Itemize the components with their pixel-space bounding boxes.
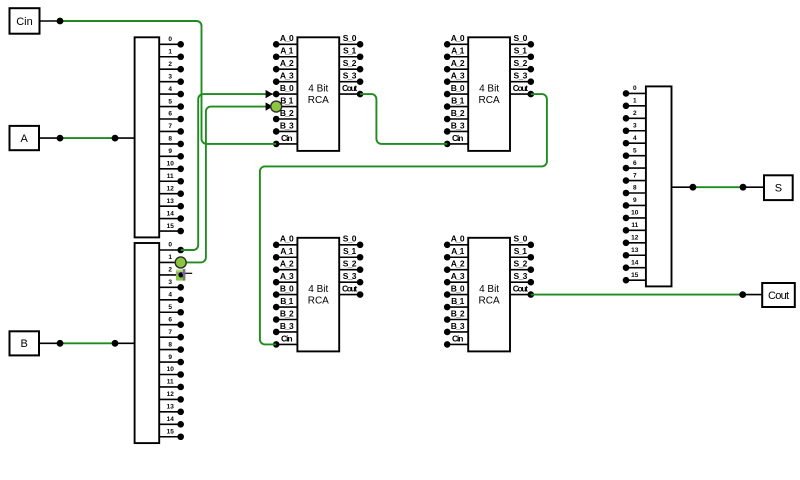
M1 pin 12 xyxy=(623,235,646,247)
wire net B -> SP2 xyxy=(60,342,115,344)
arrowhead U1.B_0 xyxy=(266,90,273,98)
svg-text:4 Bit: 4 Bit xyxy=(479,84,499,95)
subcircuit U3 '4 Bit RCA' body xyxy=(297,238,339,352)
wire net SP2.0 -> U1.B_0 xyxy=(181,94,273,250)
SP1 pin 14 xyxy=(159,210,184,222)
U4 pin B_1 xyxy=(444,296,468,310)
SP2 pin 14 xyxy=(159,416,184,428)
SP2 pin 2 xyxy=(159,267,184,279)
svg-text:A_1: A_1 xyxy=(451,46,464,56)
subcircuit U1 '4 Bit RCA' body xyxy=(297,37,339,151)
svg-text:S_1: S_1 xyxy=(343,246,356,256)
svg-text:15: 15 xyxy=(167,428,175,435)
U1 pin Cout xyxy=(339,83,363,97)
junction dot Cin xyxy=(57,18,64,25)
svg-text:9: 9 xyxy=(168,148,172,155)
svg-text:B_1: B_1 xyxy=(280,95,293,105)
svg-text:10: 10 xyxy=(631,210,639,217)
U2 pin B_3 xyxy=(444,120,468,134)
U3 pin S_1 xyxy=(339,246,363,260)
svg-text:6: 6 xyxy=(633,160,637,167)
wire stub S port xyxy=(743,186,764,188)
svg-text:5: 5 xyxy=(168,304,172,311)
svg-text:S_3: S_3 xyxy=(343,71,357,81)
U4 pin A_2 xyxy=(444,259,468,273)
U2 pin A_2 xyxy=(444,58,468,72)
U1 pin S_1 xyxy=(339,46,363,60)
U4 pin A_3 xyxy=(444,271,468,285)
U1 pin B_0 xyxy=(273,83,297,97)
svg-text:4: 4 xyxy=(168,86,172,93)
svg-text:11: 11 xyxy=(167,173,174,180)
M1 pin 7 xyxy=(623,172,646,184)
svg-text:A_0: A_0 xyxy=(280,33,294,43)
svg-text:A_3: A_3 xyxy=(280,271,294,281)
SP2 pin 1 xyxy=(159,254,181,262)
svg-text:S_2: S_2 xyxy=(514,58,528,68)
svg-text:RCA: RCA xyxy=(308,95,329,106)
svg-text:10: 10 xyxy=(167,161,175,168)
U2 label 4 Bit RCA xyxy=(479,84,500,107)
svg-text:A_3: A_3 xyxy=(280,71,294,81)
M1 pin 9 xyxy=(623,197,646,209)
wire stub Cin port xyxy=(40,20,61,22)
svg-text:7: 7 xyxy=(168,329,172,336)
SP2 pin 11 xyxy=(159,379,184,391)
svg-text:6: 6 xyxy=(168,316,172,323)
U1 pin A_1 xyxy=(273,46,297,60)
svg-text:Cout: Cout xyxy=(513,284,528,294)
svg-text:S_0: S_0 xyxy=(343,234,357,244)
M1 pin 1 xyxy=(623,98,646,110)
svg-text:A_3: A_3 xyxy=(451,271,465,281)
splitter SP2 body xyxy=(135,243,160,443)
splitter SP1 body xyxy=(135,37,160,237)
svg-text:B_0: B_0 xyxy=(451,284,465,294)
U1 pin B_3 xyxy=(273,120,297,134)
SP1 pin 6 xyxy=(159,111,184,123)
U3 label 4 Bit RCA xyxy=(308,284,329,307)
junction dot Cout xyxy=(739,291,746,298)
SP1 pin 2 xyxy=(159,61,184,73)
U2 pin S_1 xyxy=(510,46,534,60)
U1 pin S_0 xyxy=(339,33,363,47)
wire stub A port xyxy=(39,137,60,139)
SP2 pin 12 xyxy=(159,391,184,403)
svg-text:Cin: Cin xyxy=(452,333,464,343)
svg-text:13: 13 xyxy=(167,404,175,411)
U4 pin S_2 xyxy=(510,259,534,273)
SP1 pin 15 xyxy=(159,223,184,235)
highlight circle at SP2 pin 1 xyxy=(175,257,186,268)
svg-text:11: 11 xyxy=(167,379,174,386)
svg-text:S_2: S_2 xyxy=(514,259,528,269)
svg-text:12: 12 xyxy=(631,235,639,242)
U3 pin S_0 xyxy=(339,234,363,248)
input port Cin xyxy=(10,8,40,34)
wire stub Cout port xyxy=(743,294,763,296)
SP2 pin 0 xyxy=(159,242,184,254)
svg-text:A_0: A_0 xyxy=(280,234,294,244)
M1 pin 14 xyxy=(623,259,646,271)
svg-text:Cout: Cout xyxy=(768,290,789,302)
U1 label 4 Bit RCA xyxy=(308,84,329,107)
wire net M1 -> S xyxy=(693,186,743,188)
svg-text:13: 13 xyxy=(631,247,639,254)
output port S xyxy=(764,175,793,200)
svg-text:Cout: Cout xyxy=(342,284,357,294)
svg-text:5: 5 xyxy=(168,98,172,105)
svg-text:A_1: A_1 xyxy=(280,246,293,256)
M1 pin 11 xyxy=(623,222,646,234)
svg-text:RCA: RCA xyxy=(479,95,500,106)
wire net U2.Cout -> U3.Cin xyxy=(260,94,547,344)
SP1 pin 4 xyxy=(159,86,184,98)
SP1 pin 9 xyxy=(159,148,184,160)
svg-text:1: 1 xyxy=(168,254,172,261)
svg-text:S_1: S_1 xyxy=(514,46,527,56)
svg-text:14: 14 xyxy=(631,259,639,266)
SP1 pin 3 xyxy=(159,73,184,85)
U4 pin S_3 xyxy=(510,271,534,285)
svg-text:S_3: S_3 xyxy=(514,271,528,281)
U3 pin B_1 xyxy=(273,296,297,310)
svg-text:B_0: B_0 xyxy=(280,284,294,294)
M1 pin 8 xyxy=(623,185,646,197)
M1 pin 0 xyxy=(623,85,646,97)
svg-text:4 Bit: 4 Bit xyxy=(479,284,499,295)
M1 pin 4 xyxy=(623,135,646,147)
svg-text:15: 15 xyxy=(167,223,175,230)
SP2 pin 9 xyxy=(159,354,184,366)
svg-text:1: 1 xyxy=(633,98,637,105)
svg-text:B_2: B_2 xyxy=(280,308,294,318)
svg-text:B_2: B_2 xyxy=(280,108,294,118)
svg-text:A_2: A_2 xyxy=(280,58,294,68)
U1 pin S_3 xyxy=(339,71,363,85)
svg-text:B_2: B_2 xyxy=(451,108,465,118)
svg-text:B_1: B_1 xyxy=(451,95,464,105)
U1 pin A_3 xyxy=(273,71,297,85)
arrowhead U1.B_1 xyxy=(266,102,273,110)
svg-text:4: 4 xyxy=(633,135,637,142)
wire net Cin -> U1.Cin xyxy=(60,21,276,144)
svg-text:7: 7 xyxy=(168,123,172,130)
SP2 pin 15 xyxy=(159,428,184,440)
U3 pin A_1 xyxy=(273,246,297,260)
svg-text:2: 2 xyxy=(168,267,172,274)
wire net A -> SP1 xyxy=(60,137,115,139)
input port B xyxy=(10,331,40,355)
svg-text:10: 10 xyxy=(167,366,175,373)
U1 pin A_2 xyxy=(273,58,297,72)
SP1 pin 1 xyxy=(159,48,184,60)
subcircuit U2 '4 Bit RCA' body xyxy=(468,37,510,151)
U2 pin Cout xyxy=(510,83,534,97)
svg-text:3: 3 xyxy=(168,73,172,80)
svg-text:0: 0 xyxy=(168,242,172,249)
wire stub M1 output xyxy=(672,186,693,188)
svg-text:7: 7 xyxy=(633,172,637,179)
U4 pin S_0 xyxy=(510,234,534,248)
U2 pin A_0 xyxy=(444,33,468,47)
M1 pin 13 xyxy=(623,247,646,259)
wire stub B port xyxy=(39,342,60,344)
SP1 pin 11 xyxy=(159,173,184,185)
svg-text:B_3: B_3 xyxy=(280,321,294,331)
junction dot A1 xyxy=(57,135,64,142)
svg-text:S_0: S_0 xyxy=(343,33,357,43)
junction dot S2 xyxy=(740,184,747,191)
SP1 pin 12 xyxy=(159,185,184,197)
U3 pin S_3 xyxy=(339,271,363,285)
merger M1 body xyxy=(646,86,672,286)
svg-text:12: 12 xyxy=(167,185,175,192)
svg-text:1: 1 xyxy=(168,48,172,55)
U1 pin B_1 xyxy=(273,95,297,109)
svg-text:Cin: Cin xyxy=(452,133,464,143)
svg-text:S_3: S_3 xyxy=(514,71,528,81)
wire stub SP1 input xyxy=(115,137,135,139)
svg-text:A_2: A_2 xyxy=(451,58,465,68)
SP2 pin 4 xyxy=(159,292,184,304)
M1 pin 6 xyxy=(623,160,646,172)
svg-text:12: 12 xyxy=(167,391,175,398)
svg-text:S_2: S_2 xyxy=(343,259,357,269)
svg-text:4 Bit: 4 Bit xyxy=(308,84,328,95)
U2 pin A_3 xyxy=(444,71,468,85)
U2 pin B_1 xyxy=(444,95,468,109)
U2 pin S_3 xyxy=(510,71,534,85)
U3 pin S_2 xyxy=(339,259,363,273)
svg-text:8: 8 xyxy=(168,341,172,348)
U3 pin B_0 xyxy=(273,284,297,298)
svg-text:B_1: B_1 xyxy=(280,296,293,306)
SP2 pin 3 xyxy=(159,279,184,291)
U3 pin A_0 xyxy=(273,234,297,248)
svg-text:14: 14 xyxy=(167,416,175,423)
svg-text:0: 0 xyxy=(168,36,172,43)
svg-text:B_3: B_3 xyxy=(451,321,465,331)
SP1 pin 10 xyxy=(159,161,184,173)
SP2 pin 6 xyxy=(159,316,184,328)
U4 pin Cin xyxy=(444,333,468,347)
U3 pin A_3 xyxy=(273,271,297,285)
junction dot B2 xyxy=(112,340,119,347)
M1 pin 15 xyxy=(623,272,646,284)
svg-text:9: 9 xyxy=(633,197,637,204)
svg-text:RCA: RCA xyxy=(308,296,329,307)
svg-text:6: 6 xyxy=(168,111,172,118)
svg-text:S_0: S_0 xyxy=(514,234,528,244)
wire stub SP2 input xyxy=(115,342,135,344)
svg-text:B_1: B_1 xyxy=(451,296,464,306)
U2 pin B_2 xyxy=(444,108,468,122)
svg-text:S_3: S_3 xyxy=(343,271,357,281)
svg-text:A_1: A_1 xyxy=(280,46,293,56)
U3 pin Cout xyxy=(339,284,363,298)
SP1 pin 5 xyxy=(159,98,184,110)
SP2 pin 5 xyxy=(159,304,184,316)
M1 pin 10 xyxy=(623,210,646,222)
svg-text:B_3: B_3 xyxy=(451,120,465,130)
U3 pin B_2 xyxy=(273,308,297,322)
U4 pin B_0 xyxy=(444,284,468,298)
U3 pin B_3 xyxy=(273,321,297,335)
junction dot S1 xyxy=(690,184,697,191)
SP2 pin 7 xyxy=(159,329,184,341)
svg-text:Cin: Cin xyxy=(281,333,293,343)
svg-text:S_1: S_1 xyxy=(343,46,356,56)
svg-text:S_2: S_2 xyxy=(343,58,357,68)
svg-text:A_0: A_0 xyxy=(451,234,465,244)
U4 pin S_1 xyxy=(510,246,534,260)
U1 pin Cin xyxy=(273,133,297,147)
svg-text:B: B xyxy=(21,338,28,350)
svg-text:S_0: S_0 xyxy=(514,33,528,43)
U4 pin Cout xyxy=(510,284,534,298)
svg-text:A_3: A_3 xyxy=(451,71,465,81)
wire net U1.Cout -> U2.Cin xyxy=(360,94,447,144)
svg-text:Cin: Cin xyxy=(16,16,33,28)
U4 pin A_0 xyxy=(444,234,468,248)
U2 pin B_0 xyxy=(444,83,468,97)
input port A xyxy=(10,126,40,150)
U4 pin B_3 xyxy=(444,321,468,335)
SP1 pin 13 xyxy=(159,198,184,210)
junction dot B1 xyxy=(57,340,64,347)
svg-text:S: S xyxy=(775,183,782,195)
svg-text:8: 8 xyxy=(168,136,172,143)
svg-text:0: 0 xyxy=(633,85,637,92)
SP1 pin 8 xyxy=(159,136,184,148)
svg-text:S_1: S_1 xyxy=(514,246,527,256)
svg-text:Cout: Cout xyxy=(342,83,357,93)
U2 pin A_1 xyxy=(444,46,468,60)
svg-text:15: 15 xyxy=(631,272,639,279)
svg-text:Cin: Cin xyxy=(281,133,293,143)
svg-text:B_0: B_0 xyxy=(451,83,465,93)
svg-text:5: 5 xyxy=(633,147,637,154)
wire net SP2.1 -> U1.B_1 xyxy=(181,107,273,263)
U2 pin Cin xyxy=(444,133,468,147)
U1 pin A_0 xyxy=(273,33,297,47)
svg-text:RCA: RCA xyxy=(479,296,500,307)
U2 pin S_0 xyxy=(510,33,534,47)
svg-text:B_0: B_0 xyxy=(280,83,294,93)
junction dot A2 xyxy=(112,135,119,142)
U4 pin B_2 xyxy=(444,308,468,322)
SP2 pin 13 xyxy=(159,404,184,416)
svg-text:9: 9 xyxy=(168,354,172,361)
U2 pin S_2 xyxy=(510,58,534,72)
wire net U4.Cout -> Cout xyxy=(531,294,743,296)
mouse cursor artifact xyxy=(176,269,192,281)
svg-text:3: 3 xyxy=(633,122,637,129)
svg-text:14: 14 xyxy=(167,210,175,217)
svg-text:A_1: A_1 xyxy=(451,246,464,256)
svg-text:B_2: B_2 xyxy=(451,308,465,318)
svg-text:4: 4 xyxy=(168,292,172,299)
output port Cout xyxy=(762,283,795,307)
svg-text:2: 2 xyxy=(633,110,637,117)
U1 pin S_2 xyxy=(339,58,363,72)
SP2 pin 10 xyxy=(159,366,184,378)
SP2 pin 8 xyxy=(159,341,184,353)
svg-text:A_2: A_2 xyxy=(280,259,294,269)
U1 pin B_2 xyxy=(273,108,297,122)
SP1 pin 7 xyxy=(159,123,184,135)
M1 pin 5 xyxy=(623,147,646,159)
M1 pin 2 xyxy=(623,110,646,122)
svg-text:A_2: A_2 xyxy=(451,259,465,269)
svg-text:11: 11 xyxy=(631,222,638,229)
M1 pin 3 xyxy=(623,122,646,134)
U3 pin Cin xyxy=(273,333,297,347)
U4 label 4 Bit RCA xyxy=(479,284,500,307)
svg-text:A_0: A_0 xyxy=(451,33,465,43)
highlight circle at U1 pin B_1 xyxy=(271,101,282,112)
svg-text:A: A xyxy=(21,133,29,145)
svg-text:3: 3 xyxy=(168,279,172,286)
SP1 pin 0 xyxy=(159,36,184,48)
U4 pin A_1 xyxy=(444,246,468,260)
svg-text:4 Bit: 4 Bit xyxy=(308,284,328,295)
U3 pin A_2 xyxy=(273,259,297,273)
svg-text:Cout: Cout xyxy=(513,83,528,93)
subcircuit U4 '4 Bit RCA' body xyxy=(468,238,510,352)
svg-text:B_3: B_3 xyxy=(280,120,294,130)
svg-text:2: 2 xyxy=(168,61,172,68)
svg-text:8: 8 xyxy=(633,185,637,192)
svg-text:13: 13 xyxy=(167,198,175,205)
